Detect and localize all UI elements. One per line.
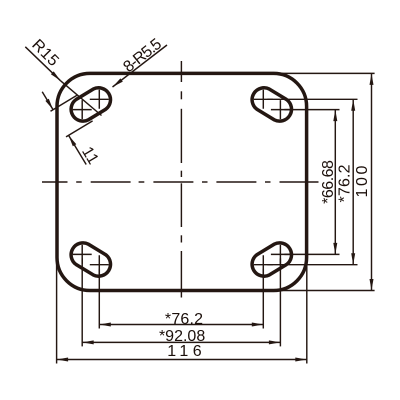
extension line down from right 76.2 cross: [262, 269, 264, 329]
svg-text:100: 100: [354, 163, 371, 198]
svg-text:*76.2: *76.2: [165, 311, 203, 328]
cross mark 76.2-pattern top-right: [254, 90, 273, 109]
slot hole bottom-right: [252, 243, 291, 276]
svg-text:*66.68: *66.68: [320, 160, 337, 204]
dimension text 11: [78, 144, 102, 168]
dimension text *66.68: [320, 160, 337, 204]
cross mark 76.2-pattern top-left: [90, 90, 109, 109]
dimension text 100: [354, 163, 371, 198]
extension line down from left 76.2 cross: [98, 269, 100, 329]
extension line slot width lower: [66, 121, 93, 137]
leader line R15: [25, 47, 101, 116]
slot hole top-right: [252, 88, 291, 121]
dimension line 11 slot width: [42, 92, 86, 165]
svg-text:11: 11: [78, 144, 102, 168]
dimension text *76.2 vertical: [337, 164, 354, 202]
slot hole top-left: [71, 88, 110, 121]
extension line right from bottom 76.2 cross: [267, 264, 357, 266]
extension line right edge for 116: [306, 255, 308, 364]
leader text 8-R5.5: [120, 36, 165, 76]
extension line right from bottom 66.68 cross: [284, 253, 339, 255]
cross mark 92.08-pattern top-right: [271, 100, 290, 119]
leader text R15: [28, 36, 62, 70]
dimension line 116: [57, 358, 307, 362]
dimension text *92.08: [159, 328, 205, 345]
dimension line *66.68: [333, 110, 337, 255]
plate outline: [57, 73, 307, 290]
cross mark 92.08-pattern top-left: [73, 100, 92, 119]
cross mark 76.2-pattern bottom-right: [254, 255, 273, 274]
dimension line 100: [370, 73, 374, 290]
svg-text:*76.2: *76.2: [337, 164, 354, 202]
dimension text *76.2 horizontal: [165, 311, 203, 328]
dimension line *92.08: [82, 340, 280, 344]
dimension line *76.2 vertical: [351, 99, 355, 264]
extension line down from left 92.08 cross: [81, 258, 83, 346]
vertical centerline: [180, 61, 182, 298]
extension line left edge for 116: [56, 258, 58, 364]
leader line 8-R5.5: [113, 45, 168, 87]
extension line slot width upper: [51, 95, 78, 111]
svg-text:116: 116: [167, 343, 206, 360]
horizontal centerline: [42, 181, 319, 183]
cross mark 92.08-pattern bottom-right: [271, 245, 290, 264]
dimension line *76.2 horizontal: [99, 323, 263, 327]
slot hole bottom-left: [71, 243, 110, 276]
cross mark 92.08-pattern bottom-left: [73, 245, 92, 264]
extension line top edge for 100: [276, 72, 375, 74]
extension line bottom edge for 100: [276, 290, 375, 292]
extension line down from right 92.08 cross: [279, 258, 281, 346]
extension line right from top 66.68 cross: [284, 109, 339, 111]
extension line right from top 76.2 cross: [267, 98, 357, 100]
dimension text 116: [167, 343, 206, 360]
svg-text:R15: R15: [28, 36, 62, 70]
svg-text:8-R5.5: 8-R5.5: [120, 36, 165, 76]
cross mark 76.2-pattern bottom-left: [90, 255, 109, 274]
